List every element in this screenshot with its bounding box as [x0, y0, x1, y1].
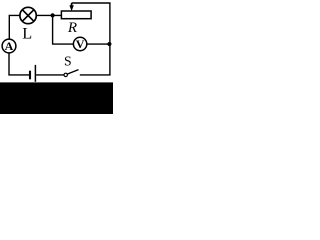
svg-text:A: A: [5, 39, 14, 53]
svg-text:V: V: [76, 37, 85, 51]
svg-text:L: L: [22, 24, 32, 43]
svg-text:R: R: [67, 20, 77, 36]
svg-text:S: S: [64, 53, 72, 68]
